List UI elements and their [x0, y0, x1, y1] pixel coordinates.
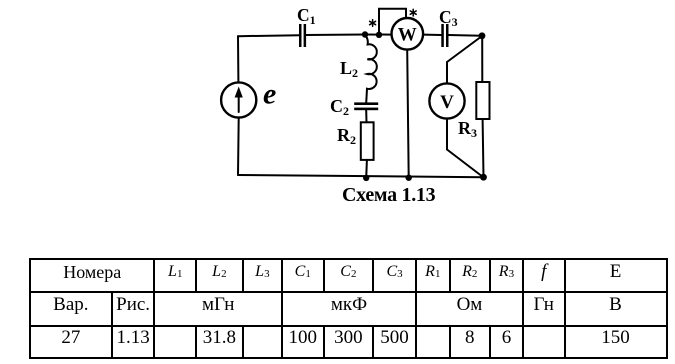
wire left vertical bottom — [237, 118, 240, 175]
circuit schematic Схема 1.13 — [0, 0, 675, 240]
wire top-left horizontal segment — [238, 35, 300, 36]
wire bottom horizontal — [238, 175, 484, 177]
inductor L2 — [365, 35, 377, 104]
wire wattmeter voltage coil down — [407, 50, 409, 178]
node A junction dot — [362, 31, 368, 37]
node F junction dot — [406, 175, 412, 181]
wire left vertical top — [237, 36, 239, 82]
caption Схема 1.13 — [342, 184, 435, 207]
svg-text:W: W — [398, 25, 417, 46]
wire C3 to node C — [449, 34, 483, 37]
wire diagonal node C to voltmeter — [447, 36, 482, 62]
svg-text:C1: C1 — [297, 5, 316, 27]
wire diagonal voltmeter to node D — [447, 150, 483, 178]
node B junction dot — [376, 32, 382, 38]
node D junction dot — [480, 174, 487, 181]
svg-text:e: e — [263, 78, 276, 111]
wire voltmeter bottom — [446, 119, 448, 150]
wire wattmeter current-coil bracket — [379, 9, 406, 35]
polarity asterisk at wattmeter top — [410, 9, 416, 16]
wire wattmeter to C3 — [423, 34, 441, 36]
node E junction dot — [363, 175, 369, 181]
resistor R3 — [476, 82, 489, 119]
svg-text:R2: R2 — [337, 125, 356, 147]
svg-text:V: V — [440, 92, 454, 113]
svg-text:C2: C2 — [330, 96, 349, 118]
capacitor C3 — [441, 24, 448, 47]
wire R3 to node D — [482, 119, 485, 177]
node C junction dot — [479, 32, 486, 39]
capacitor C1 — [299, 24, 306, 47]
svg-text:L2: L2 — [340, 58, 358, 80]
parameters table — [29, 258, 668, 359]
svg-text:C3: C3 — [439, 7, 458, 29]
voltmeter V — [429, 83, 464, 118]
source arrow — [238, 95, 240, 112]
voltage source e — [221, 82, 256, 117]
resistor R2 — [361, 122, 374, 160]
wire C2 to R2 — [365, 110, 367, 122]
polarity asterisk near node B — [370, 20, 376, 27]
wire node C down to R3 — [481, 36, 483, 82]
wire to voltmeter top — [446, 62, 448, 83]
wire C1 to node A — [306, 34, 365, 37]
wire node A to node B to wattmeter — [365, 34, 392, 36]
capacitor C2 — [354, 102, 378, 110]
svg-text:R3: R3 — [458, 118, 477, 140]
wattmeter W — [392, 18, 424, 50]
wire R2 to node E — [365, 160, 368, 178]
